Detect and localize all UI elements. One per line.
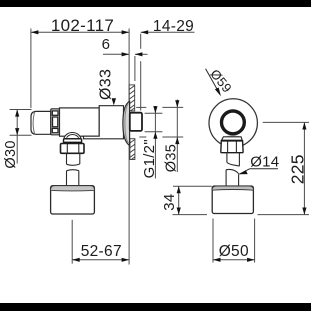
nipple tip extension line: [140, 34, 142, 111]
label Ø59: [206, 66, 235, 96]
dimension 14-29: [141, 18, 195, 35]
svg-text:34: 34: [161, 194, 178, 211]
wall front line: [128, 29, 130, 265]
outlet dome: [64, 133, 81, 139]
svg-text:52-67: 52-67: [81, 243, 122, 260]
wall plate hatch upper band: [129, 85, 135, 111]
svg-text:Ø14: Ø14: [250, 153, 279, 170]
dimension 52-67: [72, 220, 129, 264]
label Ø14: [239, 153, 279, 174]
G1/2 nipple: [130, 113, 142, 131]
svg-text:14-29: 14-29: [153, 18, 194, 35]
pipe upper (front view): [227, 153, 240, 166]
valve body left section: [60, 108, 100, 136]
dimension G1/2": [141, 106, 162, 179]
svg-text:102-117: 102-117: [51, 16, 114, 35]
valve handle: [31, 111, 51, 134]
outlet pipe lower: [67, 170, 79, 186]
ring shading: [224, 135, 241, 137]
outlet knob: [51, 186, 95, 214]
wall rosette (side view flange): [123, 101, 130, 145]
dimension Ø35: [136, 100, 183, 173]
svg-text:G1/2": G1/2": [141, 139, 158, 178]
valve body right section (Ø33): [84, 106, 124, 139]
dimension 6: [102, 36, 148, 56]
base cylinder Ø50: [212, 186, 253, 214]
svg-text:Ø30: Ø30: [3, 140, 19, 168]
top letterbox bar: [0, 0, 311, 7]
hex nut front view: [221, 141, 243, 153]
wall plate hatch lower band: [130, 139, 135, 160]
dimension 34: [161, 186, 212, 214]
label Ø33: [98, 69, 116, 106]
wall back line: [134, 56, 136, 81]
nut stem band: [222, 137, 243, 140]
dimension 102-117: [31, 16, 129, 108]
dimension Ø30: [3, 110, 31, 169]
inner ring: [222, 111, 245, 134]
valve bonnet: [51, 109, 60, 135]
svg-text:Ø35: Ø35: [164, 144, 180, 172]
svg-text:Ø50: Ø50: [219, 243, 249, 260]
dimension 225: [258, 122, 310, 214]
svg-text:6: 6: [102, 36, 111, 53]
dimension Ø50: [213, 219, 255, 263]
outlet collar: [64, 139, 82, 144]
outlet hex nut: [61, 144, 85, 154]
bottom letterbox bar: [0, 303, 311, 311]
svg-text:225: 225: [287, 154, 307, 184]
outlet pipe upper: [67, 153, 80, 165]
escutcheon circle Ø59: [209, 99, 257, 147]
svg-text:Ø33: Ø33: [98, 69, 115, 100]
pipe lower (front view): [226, 169, 239, 186]
nut top heavy edge: [221, 140, 243, 142]
